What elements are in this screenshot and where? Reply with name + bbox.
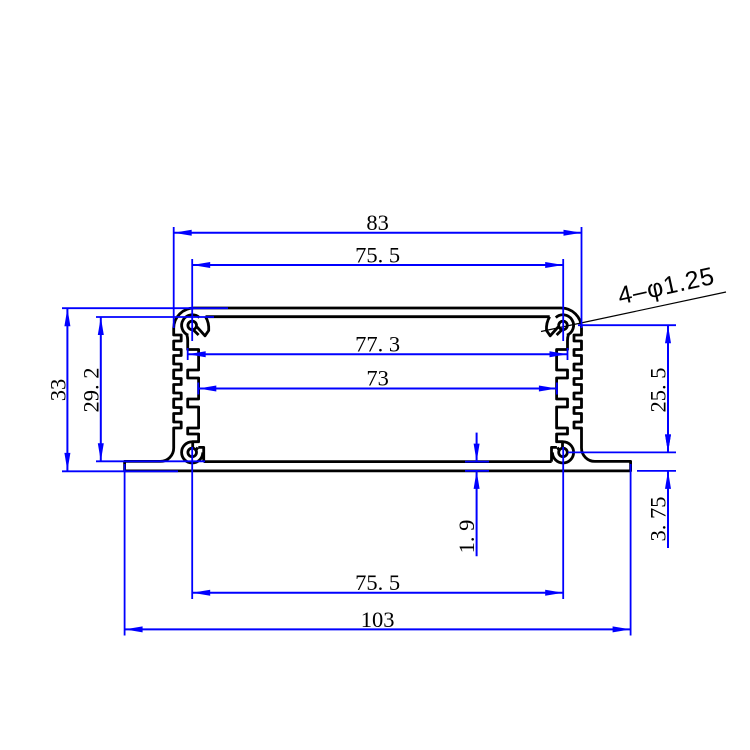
arrowheads 75.5 bottom xyxy=(192,590,210,596)
top-left screw boss xyxy=(182,315,209,336)
top-right screw boss xyxy=(546,315,573,336)
extension line 75.5 bottom right xyxy=(562,447,564,599)
arrowheads 29.2 xyxy=(98,317,104,335)
dimension line 3.75 upper stub xyxy=(667,434,669,452)
arrowheads 77.3 xyxy=(188,351,206,357)
arrowheads 3.75 xyxy=(665,434,671,452)
dimension line 1.9 upper stub xyxy=(476,433,478,462)
svg-text:83: 83 xyxy=(366,210,389,235)
extension line 83 right xyxy=(581,227,583,328)
dimension line 73 xyxy=(198,388,557,390)
bottom-right screw boss xyxy=(552,442,574,463)
svg-text:33: 33 xyxy=(45,379,70,402)
dimension line 103 xyxy=(125,628,631,630)
arrowheads 73 xyxy=(198,386,216,392)
svg-text:75. 5: 75. 5 xyxy=(355,570,400,595)
extension line 103 right xyxy=(630,464,632,636)
extension line 3.75 bottom xyxy=(637,470,676,472)
leader line for 4-phi1.25 callout xyxy=(541,292,726,332)
top plate inner surface xyxy=(206,315,550,318)
svg-text:75. 5: 75. 5 xyxy=(355,242,400,267)
svg-text:1. 9: 1. 9 xyxy=(454,520,479,554)
dimension line 83 xyxy=(174,232,582,234)
bottom plate inner (interior) top surface xyxy=(204,460,552,463)
svg-text:4–φ1.25: 4–φ1.25 xyxy=(615,262,717,310)
extension line 73 right xyxy=(556,383,558,395)
extension line 25.5/3.75 middle xyxy=(568,451,676,453)
dimension line 29.2 xyxy=(100,317,102,461)
extension line 75.5 top right xyxy=(562,259,564,341)
dimension line 25.5 xyxy=(667,325,669,452)
svg-text:29. 2: 29. 2 xyxy=(79,368,104,413)
extension line 83 left xyxy=(173,227,175,328)
svg-text:103: 103 xyxy=(361,607,395,632)
bottom-left screw boss xyxy=(182,442,204,463)
svg-text:25. 5: 25. 5 xyxy=(646,368,671,413)
arrowheads 33 xyxy=(64,308,70,326)
dimension line 77.3 xyxy=(188,353,568,355)
extension line 103 left xyxy=(124,464,126,636)
extension tick 1.9 top xyxy=(465,461,489,463)
extension line 75.5 bottom left xyxy=(191,447,193,599)
svg-text:73: 73 xyxy=(366,365,389,390)
extension line 77.3 left xyxy=(187,348,189,360)
left wall inner serrated face xyxy=(187,335,199,449)
outer contour of extrusion xyxy=(125,308,631,471)
arrowheads 1.9 xyxy=(474,444,480,462)
dimension line 3.75 lower stub xyxy=(667,471,669,548)
extension line 33 bottom xyxy=(62,470,178,472)
dimension line 33 xyxy=(66,308,68,471)
extension line 29.2 top xyxy=(96,316,214,318)
arrowheads 83 xyxy=(174,230,192,236)
extension line 75.5 top left xyxy=(191,259,193,341)
extension line 73 left xyxy=(197,383,199,395)
extension line 33 top xyxy=(62,307,228,309)
dimension line 75.5 bottom xyxy=(192,592,563,594)
arrowheads 25.5 xyxy=(665,325,671,343)
arrowheads 103 xyxy=(125,626,143,632)
extension tick 1.9 bottom xyxy=(465,470,489,472)
svg-text:3. 75: 3. 75 xyxy=(646,497,671,542)
extension line 29.2 bottom xyxy=(96,460,205,462)
dimension line 75.5 top xyxy=(192,264,563,266)
extension line 25.5 top xyxy=(578,324,676,326)
extension line 77.3 right xyxy=(567,348,569,360)
svg-text:77. 3: 77. 3 xyxy=(355,331,400,356)
arrowheads 75.5 top xyxy=(192,262,210,268)
dimension line 1.9 lower stub xyxy=(476,471,478,556)
right wall inner serrated face xyxy=(557,335,569,449)
